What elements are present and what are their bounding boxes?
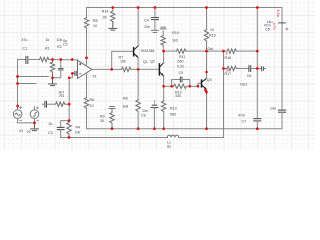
resistor R14: [111, 11, 115, 22]
svg-text:2K: 2K: [100, 119, 105, 123]
wire R10 to node: [162, 45, 164, 51]
resistor R4: [67, 121, 71, 138]
wire R12 to node: [187, 85, 198, 87]
capacitor C1: [26, 57, 28, 64]
wire right edge column: [281, 8, 283, 110]
svg-text:1k: 1k: [46, 38, 50, 42]
capacitor 14u plates: [279, 110, 286, 112]
svg-text:1k8: 1k8: [122, 104, 128, 108]
svg-text:14u: 14u: [270, 106, 276, 110]
svg-text:10n: 10n: [142, 109, 148, 113]
op-amp plus sign: [79, 63, 81, 65]
wire rail B right: [179, 137, 224, 139]
wire inv input drop: [69, 73, 72, 77]
svg-text:R8: R8: [123, 97, 128, 101]
plus tick right column: [286, 28, 288, 30]
wire R7 to Q2 base: [131, 68, 159, 70]
capacitor C4: [154, 8, 156, 18]
wire rail B: [61, 137, 168, 139]
node rail C8: [153, 127, 156, 130]
node Q3 collector: [205, 71, 208, 74]
wire Q3 emitter down: [205, 89, 207, 128]
wire Q1 emitter down: [137, 58, 139, 70]
resistor R12: [174, 84, 187, 88]
inductor L1: [167, 135, 178, 137]
svg-text:V1: V1: [19, 129, 23, 133]
svg-text:Q2: Q2: [150, 59, 155, 63]
node rail Q3: [205, 127, 208, 130]
svg-text:R14: R14: [102, 10, 109, 14]
ground under C4: [151, 30, 158, 32]
svg-text:47u: 47u: [22, 38, 28, 42]
capacitor C6: [249, 66, 251, 72]
svg-text:10: 10: [210, 28, 214, 32]
node input pin: [71, 58, 74, 61]
svg-text:C6: C6: [247, 74, 252, 78]
wire x223 down to rail B: [223, 69, 225, 138]
wire R13 bottom: [163, 112, 165, 129]
wire Q2 collector branch R11: [163, 50, 176, 52]
op-amp minus sign: [79, 73, 81, 75]
wire R10 top stub: [162, 31, 164, 36]
svg-text:R3: R3: [60, 94, 65, 98]
node V1 top: [16, 105, 19, 108]
svg-text:R1: R1: [45, 46, 50, 50]
ground under R2: [49, 78, 57, 86]
svg-text:C8: C8: [141, 114, 146, 118]
wire R15 column: [206, 8, 208, 30]
resistor R5: [85, 18, 89, 29]
resistor R11: [177, 49, 186, 53]
ground under R14: [109, 22, 117, 30]
node Q3 emitter: [204, 89, 207, 92]
node stub B: [16, 82, 19, 85]
svg-text:C7: C7: [242, 119, 247, 123]
output port stub: [257, 68, 261, 70]
wire Q3 collector up: [205, 51, 207, 78]
wire R1 to op-amp: [49, 59, 78, 61]
node C6 right: [256, 67, 259, 70]
node R3 junction: [68, 103, 71, 106]
svg-text:10: 10: [93, 24, 97, 28]
svg-text:10n: 10n: [144, 25, 150, 29]
svg-text:47m: 47m: [238, 113, 245, 117]
wire Q2 emitter down: [163, 76, 165, 86]
wire op-amp V- down: [86, 74, 88, 97]
node top rail C4: [154, 6, 157, 9]
svg-text:10: 10: [90, 104, 94, 108]
node top rail C7: [256, 6, 259, 9]
wire R17 to C6: [236, 68, 248, 70]
wire R8 column: [137, 69, 139, 100]
ground under V2: [31, 123, 39, 131]
svg-text:10k: 10k: [75, 131, 81, 135]
transistor Q1: [134, 46, 139, 58]
node R4 top: [68, 119, 71, 122]
node inv input: [71, 72, 74, 75]
svg-text:10k: 10k: [57, 38, 63, 42]
wire input corner: [18, 60, 26, 110]
wire C7 bottom: [256, 121, 258, 129]
node rail R9: [111, 127, 114, 130]
svg-text:4.7V: 4.7V: [272, 23, 276, 31]
svg-text:Out: Out: [208, 47, 214, 51]
wire mid stub B: [18, 83, 37, 85]
node ground R2: [51, 76, 54, 79]
node C9 right: [188, 85, 191, 88]
wire source bottoms: [18, 118, 35, 123]
wire feedback column: [68, 78, 70, 121]
wire R8 bottom: [137, 112, 139, 129]
resistor R10: [161, 36, 165, 46]
wire V+ column upper: [86, 8, 88, 18]
wire output up to Q1 base: [112, 51, 133, 69]
node C9 left: [170, 85, 173, 88]
wire branch vertical x223: [223, 51, 225, 68]
transistor Q2: [159, 63, 163, 76]
resistor R8: [136, 100, 140, 112]
capacitor C9 loop: [172, 80, 181, 87]
node op-amp out: [110, 68, 113, 71]
resistor R16: [227, 49, 236, 53]
svg-text:C3: C3: [48, 131, 53, 135]
node top rail R14: [111, 6, 114, 9]
svg-text:10k: 10k: [120, 59, 126, 63]
node Q2 base: [137, 68, 140, 71]
node bars above R10: [160, 27, 166, 29]
svg-text:OU1: OU1: [240, 82, 247, 86]
svg-text:9.2m: 9.2m: [276, 10, 280, 18]
node V2 ground: [33, 122, 36, 125]
svg-text:R2: R2: [57, 45, 62, 49]
node R10 bottom: [162, 50, 165, 53]
capacitor inverting input: [75, 71, 77, 75]
node R17 left: [222, 67, 225, 70]
svg-text:C9: C9: [179, 71, 184, 75]
wire R15 to Out node: [206, 41, 208, 51]
svg-text:R11: R11: [179, 55, 185, 59]
resistor R9: [110, 108, 114, 128]
svg-text:8u: 8u: [167, 144, 171, 148]
wire R11 to Out: [186, 50, 207, 52]
wire C3 branch: [61, 121, 69, 128]
wire Q1 collector column: [137, 8, 139, 46]
node rail R8: [137, 127, 140, 130]
resistor R6: [84, 98, 88, 109]
capacitor C7 plates: [254, 119, 261, 121]
wire top rail: [87, 7, 283, 9]
capacitor C8: [153, 101, 155, 106]
svg-text:1k3: 1k3: [172, 39, 178, 43]
wire C6 to node: [251, 68, 257, 70]
node top rail Q1: [137, 6, 140, 9]
svg-text:V2: V2: [27, 130, 31, 134]
wire R13 column: [163, 86, 165, 101]
resistor R7: [122, 67, 131, 71]
node input R2: [51, 58, 54, 61]
node op-amp V+: [85, 57, 88, 60]
wire mid stub A: [18, 76, 49, 78]
svg-text:R4: R4: [76, 126, 81, 130]
node feedback top: [68, 76, 71, 79]
svg-text:R9: R9: [100, 114, 105, 118]
node bars above R9: [109, 107, 115, 109]
wire C5 column top: [256, 8, 258, 119]
resistor R13: [162, 101, 166, 112]
svg-text:560: 560: [178, 60, 184, 64]
node input C2: [59, 58, 62, 61]
svg-text:Q1: Q1: [143, 60, 148, 64]
node rail C7: [256, 127, 259, 130]
wire right column bottom: [281, 112, 283, 128]
node Out: [205, 50, 208, 53]
wire rail A: [87, 128, 283, 130]
wire emitter node to R12: [164, 85, 174, 87]
node stub A: [16, 75, 19, 78]
svg-text:C4: C4: [144, 19, 149, 23]
svg-text:R16: R16: [225, 56, 232, 60]
node top rail R15: [205, 6, 208, 9]
svg-text:R17: R17: [225, 72, 232, 76]
transistor Q3: [198, 83, 201, 86]
svg-text:R15: R15: [209, 34, 216, 38]
capacitor C2 vertical: [60, 60, 62, 69]
capacitor C3: [57, 127, 64, 129]
wire Q2 collector up: [163, 51, 165, 63]
op-amp X1: [78, 60, 92, 78]
source V2: [30, 110, 39, 119]
node Q2 emitter: [162, 85, 165, 88]
node bar right column: [279, 22, 286, 24]
resistor R15: [204, 30, 208, 42]
svg-text:330: 330: [175, 94, 181, 98]
wire op-amp output: [92, 68, 122, 70]
svg-text:C5: C5: [265, 28, 270, 32]
svg-text:C2: C2: [63, 43, 68, 47]
svg-text:R10: R10: [172, 31, 179, 35]
svg-text:R13: R13: [170, 106, 177, 110]
wire Out to branch node: [207, 50, 224, 52]
resistor R2 vertical: [50, 60, 54, 78]
wire R16 right: [236, 50, 257, 52]
wire inverting input: [72, 72, 75, 74]
wire C1 to R1: [28, 59, 40, 61]
node rail B R4: [68, 136, 71, 139]
svg-text:C1: C1: [23, 46, 28, 50]
svg-text:560: 560: [170, 113, 176, 117]
wire branch node to R16: [224, 50, 228, 52]
svg-text:Q3: Q3: [207, 78, 212, 82]
node Q3 base: [197, 85, 200, 88]
svg-text:KIA1381: KIA1381: [141, 49, 155, 53]
node R16 right: [256, 50, 259, 53]
svg-text:R5: R5: [93, 19, 98, 23]
resistor R3: [56, 102, 66, 106]
resistor R17: [224, 66, 237, 70]
resistor R1: [40, 57, 49, 61]
wire R3 branch: [66, 103, 70, 105]
wire R14 drop: [112, 8, 114, 12]
svg-text:X1: X1: [92, 75, 96, 79]
source V1: [13, 110, 22, 119]
svg-text:2K: 2K: [103, 16, 108, 20]
svg-text:R6: R6: [90, 98, 95, 102]
node branch split: [222, 50, 225, 53]
wire V+ into op-amp: [86, 28, 88, 65]
svg-text:8: 8: [226, 51, 228, 55]
wire V- to rail: [86, 108, 88, 128]
node rail R13: [162, 127, 165, 130]
svg-text:3u: 3u: [49, 122, 53, 126]
svg-text:3.3n: 3.3n: [177, 64, 184, 68]
node Q3 emitter low: [205, 91, 208, 94]
capacitor R3 branch: [45, 101, 47, 107]
